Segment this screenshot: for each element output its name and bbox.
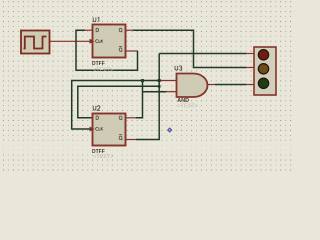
svg-text:<TEXT>: <TEXT>: [177, 104, 197, 110]
svg-text:<TEXT>: <TEXT>: [93, 68, 113, 74]
svg-text:<TEXT>: <TEXT>: [93, 154, 113, 160]
svg-text:DTFF: DTFF: [92, 61, 105, 67]
